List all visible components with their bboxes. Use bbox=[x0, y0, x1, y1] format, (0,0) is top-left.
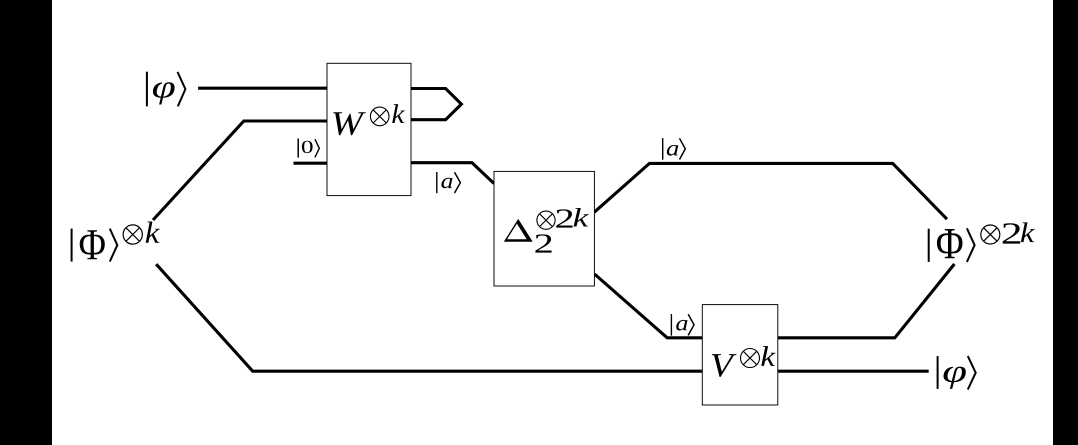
label ket phi (bottom right output state) bbox=[938, 356, 976, 389]
label ket phi (top left input state) bbox=[147, 72, 186, 107]
wire: |0> ancilla into W box bbox=[294, 162, 328, 165]
wire: V upper output to |Phi>^2k bbox=[778, 264, 954, 338]
label ket a (Delta upper output) bbox=[663, 138, 686, 160]
wire: |Phi> lower branch into V box bbox=[156, 264, 702, 371]
label ket a (W output) bbox=[437, 172, 461, 193]
label ket a (V input) bbox=[671, 314, 694, 336]
wire: |phi> input into W box bbox=[198, 87, 327, 90]
label ket 0 (ancilla) bbox=[298, 139, 319, 158]
label V^(tensor k) bbox=[712, 346, 776, 377]
wire: Delta lower output |a> into V box bbox=[595, 274, 703, 338]
wire: Delta upper output |a> to |Phi>^2k bbox=[594, 163, 947, 219]
left black sidebar bbox=[0, 0, 52, 445]
label Delta_2^(tensor 2k) bbox=[504, 208, 589, 253]
wire: W output |a> into Delta box bbox=[411, 163, 494, 184]
pennant: merged discarded outputs of W bbox=[411, 89, 461, 120]
right black sidebar bbox=[1053, 0, 1078, 445]
wire: V lower output to |phi> bbox=[778, 370, 929, 373]
box Delta_2^(tensor 2k) (cloner) bbox=[494, 171, 594, 286]
box V^k (unitary) bbox=[702, 305, 778, 405]
box W^k (unitary) bbox=[327, 63, 411, 195]
label ket Phi^(tensor k) (left input state) bbox=[72, 222, 160, 262]
label W^(tensor k) bbox=[333, 104, 405, 135]
wire: |Phi> upper branch into W box bbox=[153, 121, 327, 220]
label ket Phi^(tensor 2k) (right output state) bbox=[929, 222, 1035, 262]
